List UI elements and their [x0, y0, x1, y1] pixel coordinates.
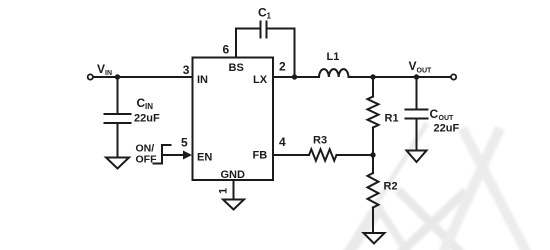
svg-text:IN: IN [197, 74, 208, 86]
svg-text:OFF: OFF [136, 154, 158, 166]
wire BS pin 6 [235, 29, 237, 58]
node C1/LX junction [292, 74, 297, 79]
svg-text:GND: GND [221, 169, 246, 181]
svg-text:LX: LX [253, 74, 268, 86]
wire GND pin 1 [233, 180, 235, 200]
svg-text:BS: BS [229, 62, 244, 74]
node FB/R1/R2 junction [370, 152, 375, 157]
capacitor COUT plates [406, 109, 428, 111]
wire R1 top [372, 77, 374, 97]
wire VIN to pin 3 [93, 76, 193, 78]
wire COUT to ground [416, 119, 418, 151]
svg-text:OUT: OUT [439, 115, 455, 122]
ground COUT [407, 151, 427, 163]
wire R2 to ground [372, 208, 374, 234]
svg-text:V: V [97, 62, 105, 76]
capacitor CIN plates [105, 113, 131, 115]
wire R3 to FB node [337, 154, 374, 156]
wire LX pin 2 to L1 [273, 76, 319, 78]
svg-text:22uF: 22uF [434, 123, 460, 135]
svg-text:R2: R2 [384, 181, 398, 193]
ground R2 [364, 233, 385, 244]
EN arrowhead [183, 151, 192, 160]
svg-text:V: V [409, 59, 417, 73]
svg-text:IN: IN [105, 70, 112, 77]
svg-text:1: 1 [218, 188, 230, 194]
wire FB pin 4 to R3 [273, 154, 309, 156]
resistor R2 [368, 173, 379, 208]
wire C1 right [267, 28, 295, 30]
svg-text:1: 1 [267, 12, 272, 21]
svg-text:6: 6 [223, 43, 230, 57]
wire CIN top branch [117, 77, 119, 114]
ground GND pin [223, 200, 244, 210]
svg-text:IN: IN [145, 102, 153, 111]
svg-text:FB: FB [253, 150, 268, 162]
terminal VOUT [451, 74, 456, 79]
wire CIN to ground [117, 123, 119, 158]
on/off pulse symbol [154, 145, 171, 164]
resistor R3 [309, 149, 337, 160]
watermark letter X lower [398, 190, 466, 250]
node VIN/CIN junction [115, 74, 120, 79]
svg-text:OUT: OUT [417, 68, 433, 75]
svg-text:22uF: 22uF [134, 113, 160, 125]
watermark letter A top [350, 210, 408, 250]
svg-text:C: C [430, 107, 439, 121]
wire C1 left [236, 28, 261, 30]
ground CIN [106, 158, 129, 169]
terminal VIN [88, 74, 93, 79]
node COUT junction [414, 74, 419, 79]
wire COUT top [416, 77, 418, 110]
op-amp U1 : IC body [193, 58, 274, 181]
svg-text:3: 3 [183, 63, 190, 77]
svg-text:4: 4 [279, 135, 286, 149]
inductor L1 [319, 69, 348, 77]
capacitor C1 plates [260, 22, 262, 38]
svg-text:R3: R3 [313, 135, 327, 147]
watermark stroke (long diagonal slash) [345, 123, 427, 250]
svg-text:L1: L1 [327, 51, 340, 63]
svg-text:5: 5 [181, 136, 188, 150]
watermark letter X right [443, 128, 527, 250]
svg-text:2: 2 [279, 60, 286, 74]
node R1 top junction [370, 74, 375, 79]
wire C1 down to LX node [294, 29, 296, 78]
resistor R1 [368, 97, 379, 128]
wire EN arrow line [162, 154, 184, 156]
svg-text:R1: R1 [385, 113, 399, 125]
wire R1 to FB node [372, 128, 374, 156]
wire R2 top [372, 155, 374, 173]
svg-text:EN: EN [197, 152, 212, 164]
wire L1 to VOUT [349, 76, 452, 78]
